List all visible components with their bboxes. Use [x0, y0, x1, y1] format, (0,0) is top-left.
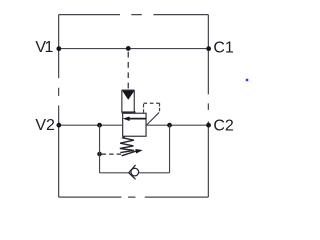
node V1	[56, 46, 61, 51]
pilot linkage diagonal	[146, 112, 159, 125]
enclosure (assembly boundary, dash-dot frame)	[59, 15, 209, 198]
wire: bypass right vertical	[169, 125, 171, 173]
wire: V2 line (left segment)	[58, 124, 122, 126]
pilot pressure arrow (filled triangle)	[122, 90, 135, 100]
node: pilot tap on bypass branch	[97, 152, 102, 157]
relief valve body	[123, 113, 146, 136]
node: pilot tap on V1-C1 line	[126, 46, 131, 51]
pilot line (dashed) from V1-C1 down to relief valve	[127, 52, 129, 90]
pilot piston (dashed box)	[143, 103, 145, 113]
svg-text:C1: C1	[213, 39, 234, 56]
valve seat bar (thick)	[122, 111, 136, 113]
check valve (ball in V seat)	[131, 168, 139, 176]
wire: C2 line (right segment)	[146, 124, 209, 126]
wire: bypass left vertical	[99, 125, 101, 173]
wire: bypass bottom left	[100, 172, 130, 174]
wire: bypass bottom right	[139, 172, 170, 174]
svg-text:V2: V2	[35, 117, 55, 134]
flow path arrow (points left) inside valve	[127, 118, 146, 120]
node C2	[206, 123, 211, 128]
node V2	[56, 123, 61, 128]
spring (zigzag) under relief valve	[120, 136, 134, 152]
pilot sense line (dashed) to spring chamber	[102, 153, 124, 155]
node C1	[206, 46, 211, 51]
relief valve pilot box (narrow rectangle)	[122, 90, 134, 112]
node: bypass tee left	[97, 123, 102, 128]
stray blue dot artifact	[246, 79, 248, 81]
adjustment arrow through spring	[122, 151, 137, 156]
node: bypass tee right	[167, 123, 172, 128]
svg-text:V1: V1	[35, 39, 53, 56]
svg-text:C2: C2	[213, 117, 234, 134]
wire: V1-C1 line	[58, 48, 208, 50]
